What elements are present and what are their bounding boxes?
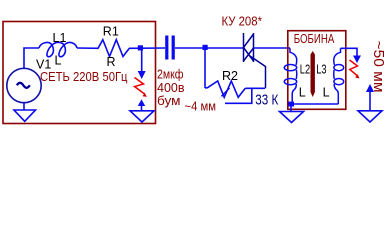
node A (junction square) (138, 45, 143, 50)
wire (R1 to capacitor) (129, 47, 165, 49)
wire (V1 top riser) (24, 48, 39, 69)
svg-text:L: L (323, 85, 330, 99)
ground (mains) (14, 110, 36, 121)
resistor R1 (98, 40, 129, 57)
wire (L1 to R1) (77, 47, 99, 49)
node B (junction square) (203, 45, 208, 50)
svg-text:~50 мм: ~50 мм (370, 41, 387, 93)
spark gap upper electrode (down arrow) (141, 48, 143, 72)
svg-text:R1: R1 (103, 25, 119, 39)
capacitor C1 plates (165, 36, 168, 60)
svg-text:СЕТЬ 220В 50Гц: СЕТЬ 220В 50Гц (40, 69, 128, 84)
resistor R2 (variable) (205, 81, 245, 97)
svg-text:L: L (299, 85, 306, 99)
svg-text:L1: L1 (53, 31, 67, 45)
ground (coil) (280, 112, 304, 123)
ground (spark gap) (130, 111, 154, 122)
inductor L1 (39, 42, 77, 56)
enclosure box (mains side) (3, 22, 156, 124)
node C (junction square) (288, 102, 294, 107)
svg-text:БОБИНА: БОБИНА (294, 31, 335, 46)
svg-text:~4 мм: ~4 мм (185, 99, 217, 113)
thyristor КУ208 (triac) (244, 33, 266, 88)
wire (thyristor to bobbin) (254, 47, 291, 49)
AC source V1 (7, 68, 41, 102)
coil L3 (secondary) (334, 48, 344, 104)
svg-text:бум: бум (157, 93, 181, 108)
bobbin box (288, 31, 346, 110)
wire (bottom rail) (291, 103, 338, 105)
wiper arrow R2 (222, 88, 230, 96)
wire (node B down to R2) (204, 48, 206, 88)
ground (output) (358, 111, 382, 122)
svg-text:33 К: 33 К (255, 92, 278, 108)
svg-text:R2: R2 (222, 69, 238, 83)
output electrode (down arrow) (353, 56, 361, 64)
coil L2 (primary) (284, 48, 296, 104)
transformer core (311, 51, 315, 97)
output electrode (up arrow) (366, 84, 374, 92)
wire (wiper to right lead) (225, 88, 252, 103)
spark (output lightning) (350, 60, 358, 76)
wire (V1 bottom to ground) (23, 103, 25, 110)
wire (R2 right lead to gate) (245, 87, 265, 89)
spark (lightning bolt) (135, 78, 145, 95)
wire (node C to ground) (290, 105, 292, 111)
svg-text:L: L (55, 53, 62, 67)
svg-text:L2: L2 (300, 62, 310, 76)
wire (L3 top out of box) (341, 48, 358, 56)
wire (capacitor to thyristor) (175, 47, 244, 49)
svg-text:R: R (107, 55, 116, 69)
svg-text:L3: L3 (316, 62, 326, 76)
spark gap lower electrode (up arrow) (138, 99, 145, 106)
svg-text:КУ 208*: КУ 208* (222, 14, 263, 29)
